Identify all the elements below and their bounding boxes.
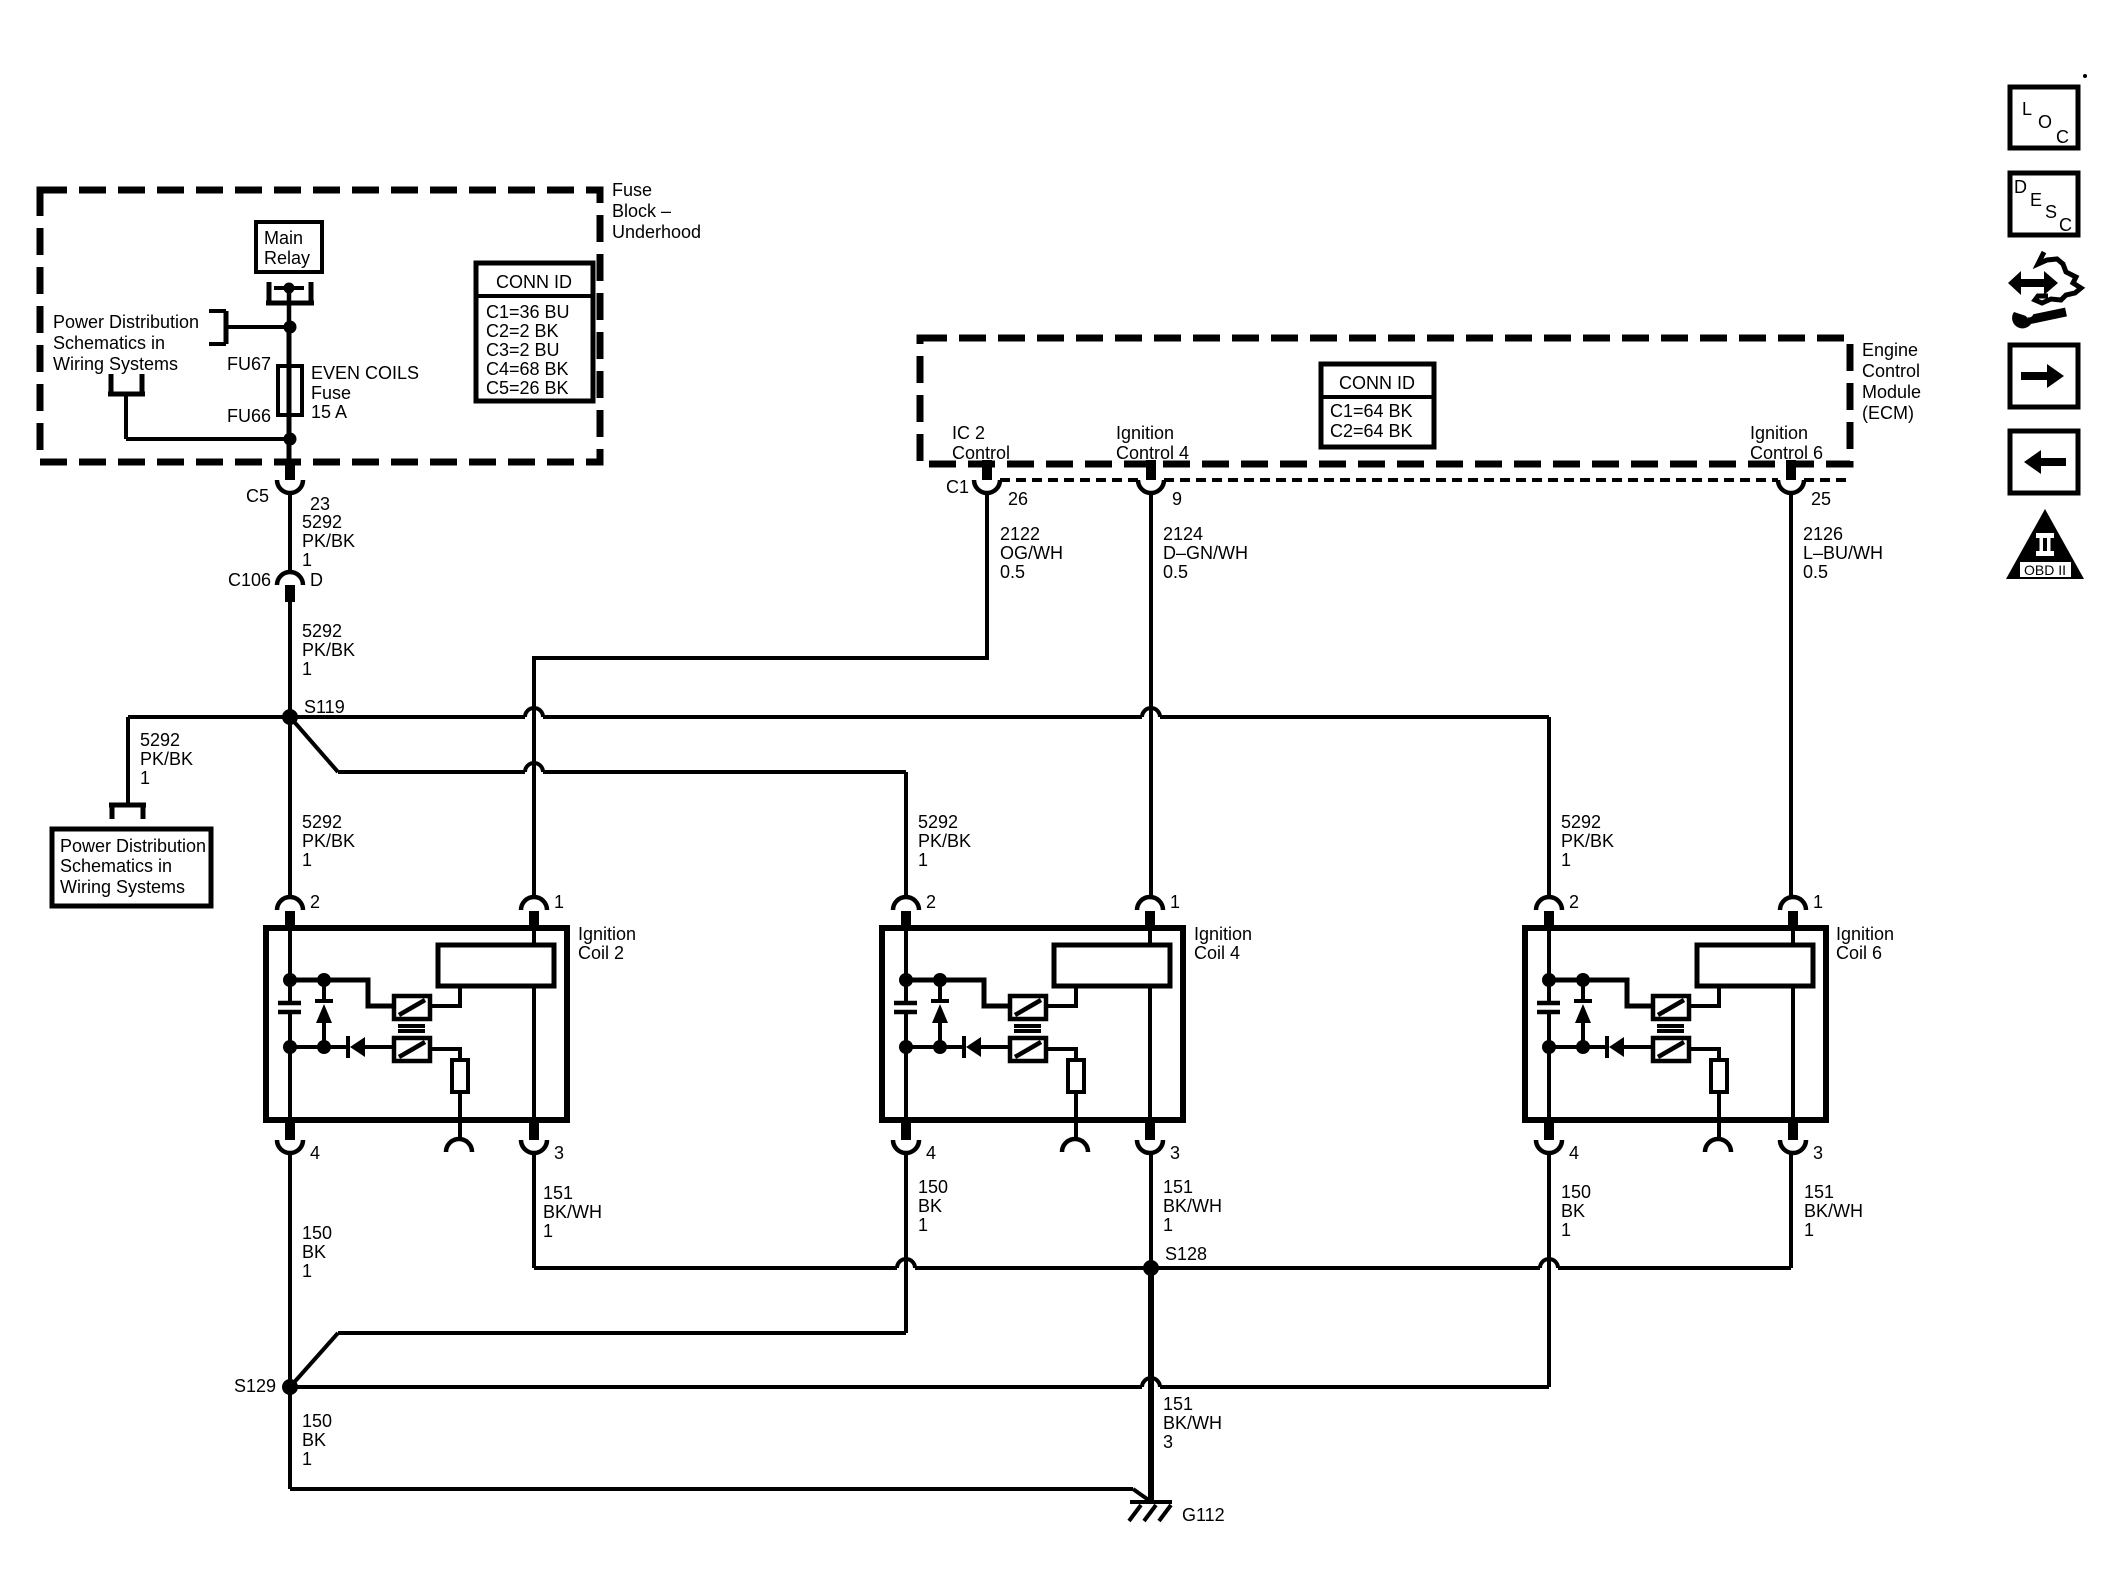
svg-text:0.5: 0.5 bbox=[1803, 562, 1828, 582]
svg-text:BK: BK bbox=[302, 1242, 326, 1262]
svg-text:BK/WH: BK/WH bbox=[1163, 1196, 1222, 1216]
svg-text:Power Distribution: Power Distribution bbox=[60, 836, 206, 856]
svg-text:151: 151 bbox=[1163, 1394, 1193, 1414]
svg-text:Ignition: Ignition bbox=[578, 924, 636, 944]
svg-text:C5: C5 bbox=[246, 486, 269, 506]
svg-text:D–GN/WH: D–GN/WH bbox=[1163, 543, 1248, 563]
svg-text:1: 1 bbox=[918, 850, 928, 870]
svg-text:O: O bbox=[2038, 112, 2052, 132]
svg-text:L: L bbox=[2022, 99, 2032, 119]
svg-text:15 A: 15 A bbox=[311, 402, 347, 422]
svg-text:0.5: 0.5 bbox=[1000, 562, 1025, 582]
svg-text:C1=36 BU: C1=36 BU bbox=[486, 302, 570, 322]
svg-text:PK/BK: PK/BK bbox=[302, 640, 355, 660]
svg-text:BK: BK bbox=[1561, 1201, 1585, 1221]
svg-text:5292: 5292 bbox=[140, 730, 180, 750]
svg-text:Schematics in: Schematics in bbox=[60, 856, 172, 876]
svg-text:150: 150 bbox=[918, 1177, 948, 1197]
svg-text:5292: 5292 bbox=[1561, 812, 1601, 832]
svg-text:26: 26 bbox=[1008, 489, 1028, 509]
svg-text:1: 1 bbox=[302, 1261, 312, 1281]
svg-text:PK/BK: PK/BK bbox=[302, 831, 355, 851]
svg-text:1: 1 bbox=[1804, 1220, 1814, 1240]
svg-text:5292: 5292 bbox=[302, 621, 342, 641]
svg-text:C3=2 BU: C3=2 BU bbox=[486, 340, 560, 360]
svg-text:CONN ID: CONN ID bbox=[496, 272, 572, 292]
svg-text:151: 151 bbox=[1804, 1182, 1834, 1202]
svg-text:Ignition: Ignition bbox=[1836, 924, 1894, 944]
svg-text:Block –: Block – bbox=[612, 201, 671, 221]
svg-text:Fuse: Fuse bbox=[311, 383, 351, 403]
svg-text:S119: S119 bbox=[304, 697, 345, 717]
svg-text:3: 3 bbox=[1163, 1432, 1173, 1452]
svg-text:FU67: FU67 bbox=[227, 354, 271, 374]
svg-text:151: 151 bbox=[1163, 1177, 1193, 1197]
svg-text:D: D bbox=[2014, 177, 2027, 197]
svg-text:23: 23 bbox=[310, 494, 330, 514]
svg-text:PK/BK: PK/BK bbox=[918, 831, 971, 851]
svg-text:OBD II: OBD II bbox=[2024, 562, 2066, 578]
svg-text:E: E bbox=[2030, 190, 2042, 210]
svg-text:G112: G112 bbox=[1182, 1505, 1225, 1525]
svg-text:Schematics in: Schematics in bbox=[53, 333, 165, 353]
svg-text:1: 1 bbox=[1163, 1215, 1173, 1235]
svg-text:1: 1 bbox=[302, 659, 312, 679]
svg-text:C1=64 BK: C1=64 BK bbox=[1330, 401, 1413, 421]
svg-text:S129: S129 bbox=[234, 1376, 276, 1396]
svg-text:151: 151 bbox=[543, 1183, 573, 1203]
svg-text:EVEN COILS: EVEN COILS bbox=[311, 363, 419, 383]
svg-text:5292: 5292 bbox=[918, 812, 958, 832]
svg-text:IC 2: IC 2 bbox=[952, 423, 985, 443]
svg-text:5292: 5292 bbox=[302, 512, 342, 532]
svg-text:L–BU/WH: L–BU/WH bbox=[1803, 543, 1883, 563]
svg-text:CONN ID: CONN ID bbox=[1339, 373, 1415, 393]
svg-text:C2=2 BK: C2=2 BK bbox=[486, 321, 559, 341]
svg-text:C1: C1 bbox=[946, 477, 969, 497]
svg-text:C4=68 BK: C4=68 BK bbox=[486, 359, 569, 379]
svg-text:Control: Control bbox=[952, 443, 1010, 463]
svg-text:150: 150 bbox=[302, 1411, 332, 1431]
svg-text:Relay: Relay bbox=[264, 248, 310, 268]
svg-text:150: 150 bbox=[1561, 1182, 1591, 1202]
svg-text:Wiring Systems: Wiring Systems bbox=[60, 877, 185, 897]
svg-text:Control: Control bbox=[1862, 361, 1920, 381]
svg-text:Ignition: Ignition bbox=[1750, 423, 1808, 443]
svg-text:S128: S128 bbox=[1165, 1244, 1207, 1264]
svg-text:Module: Module bbox=[1862, 382, 1921, 402]
svg-text:C2=64 BK: C2=64 BK bbox=[1330, 421, 1413, 441]
svg-text:Coil 2: Coil 2 bbox=[578, 943, 624, 963]
svg-text:S: S bbox=[2045, 202, 2057, 222]
svg-text:D: D bbox=[310, 570, 323, 590]
svg-text:0.5: 0.5 bbox=[1163, 562, 1188, 582]
svg-text:Engine: Engine bbox=[1862, 340, 1918, 360]
svg-text:1: 1 bbox=[140, 768, 150, 788]
svg-text:C: C bbox=[2056, 127, 2069, 147]
svg-text:BK/WH: BK/WH bbox=[543, 1202, 602, 1222]
svg-text:PK/BK: PK/BK bbox=[302, 531, 355, 551]
svg-text:Coil 6: Coil 6 bbox=[1836, 943, 1882, 963]
svg-text:Underhood: Underhood bbox=[612, 222, 701, 242]
svg-text:C5=26 BK: C5=26 BK bbox=[486, 378, 569, 398]
svg-text:C106: C106 bbox=[228, 570, 271, 590]
svg-text:FU66: FU66 bbox=[227, 406, 271, 426]
svg-text:Ignition: Ignition bbox=[1194, 924, 1252, 944]
svg-text:PK/BK: PK/BK bbox=[1561, 831, 1614, 851]
svg-text:OG/WH: OG/WH bbox=[1000, 543, 1063, 563]
svg-text:150: 150 bbox=[302, 1223, 332, 1243]
svg-text:PK/BK: PK/BK bbox=[140, 749, 193, 769]
svg-text:2126: 2126 bbox=[1803, 524, 1843, 544]
svg-text:1: 1 bbox=[302, 550, 312, 570]
svg-text:BK/WH: BK/WH bbox=[1163, 1413, 1222, 1433]
svg-text:Ignition: Ignition bbox=[1116, 423, 1174, 443]
svg-text:1: 1 bbox=[1561, 850, 1571, 870]
svg-text:Power Distribution: Power Distribution bbox=[53, 312, 199, 332]
svg-text:9: 9 bbox=[1172, 489, 1182, 509]
svg-text:1: 1 bbox=[302, 1449, 312, 1469]
svg-text:2122: 2122 bbox=[1000, 524, 1040, 544]
svg-text:2124: 2124 bbox=[1163, 524, 1203, 544]
svg-text:BK/WH: BK/WH bbox=[1804, 1201, 1863, 1221]
svg-text:Wiring Systems: Wiring Systems bbox=[53, 354, 178, 374]
svg-text:Main: Main bbox=[264, 228, 303, 248]
svg-text:5292: 5292 bbox=[302, 812, 342, 832]
svg-text:C: C bbox=[2059, 215, 2072, 235]
svg-text:1: 1 bbox=[918, 1215, 928, 1235]
svg-text:(ECM): (ECM) bbox=[1862, 403, 1914, 423]
svg-text:1: 1 bbox=[543, 1221, 553, 1241]
svg-text:Coil 4: Coil 4 bbox=[1194, 943, 1240, 963]
svg-text:BK: BK bbox=[918, 1196, 942, 1216]
svg-text:1: 1 bbox=[1561, 1220, 1571, 1240]
svg-text:25: 25 bbox=[1811, 489, 1831, 509]
svg-text:BK: BK bbox=[302, 1430, 326, 1450]
svg-text:Fuse: Fuse bbox=[612, 180, 652, 200]
svg-text:1: 1 bbox=[302, 850, 312, 870]
